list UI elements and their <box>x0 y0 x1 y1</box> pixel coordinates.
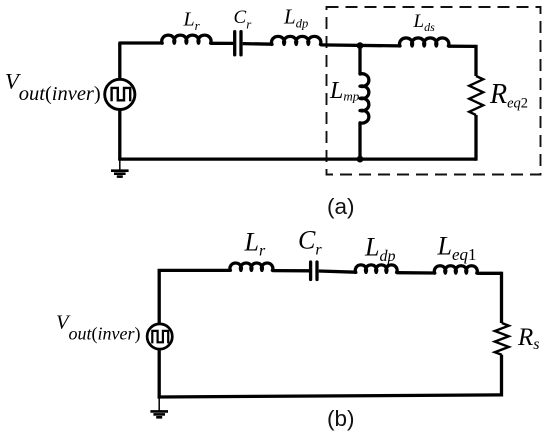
ground (b) <box>158 398 160 411</box>
wire Leq1 to top-right corner <box>477 272 501 275</box>
wire source (b) top lead <box>158 270 161 323</box>
inductor L4 coil (Lmp, vertical) <box>360 74 369 123</box>
wire Lr to Cr (b) <box>273 269 310 272</box>
svg-text:Lr: Lr <box>183 8 201 33</box>
node A junction dot <box>357 42 364 49</box>
svg-text:(b): (b) <box>327 406 355 431</box>
capacitor C2 (Cr) plates <box>311 262 317 280</box>
svg-text:Lds: Lds <box>413 11 436 34</box>
svg-text:Vout(inver): Vout(inver) <box>56 311 141 344</box>
inductor L3 coil (Lds) <box>400 38 449 46</box>
svg-text:Lmp: Lmp <box>329 78 360 104</box>
wire Lds to top-right corner <box>448 45 476 49</box>
inductor L6 coil (Ldp) <box>355 265 397 272</box>
wire Ldp to Leq1 <box>397 271 435 275</box>
svg-text:Req2: Req2 <box>489 79 528 112</box>
svg-text:Vout(inver): Vout(inver) <box>5 68 101 105</box>
svg-text:Ldp: Ldp <box>283 5 308 31</box>
ground (a) <box>119 160 121 170</box>
svg-text:Leq1: Leq1 <box>437 232 477 265</box>
wire Cr to Ldp <box>243 42 272 46</box>
inductor L5 coil (Lr) <box>230 263 273 270</box>
svg-text:(a): (a) <box>327 194 355 219</box>
wire source top lead <box>118 43 121 79</box>
wire top-left corner to Lr <box>159 269 230 271</box>
voltage source V2 (square-wave) circle <box>147 324 172 349</box>
svg-text:Cr: Cr <box>234 7 253 32</box>
wire right branch bottom lead <box>474 115 477 161</box>
inductor L7 coil (Leq1) <box>434 266 477 273</box>
wire right branch (b) top lead <box>500 272 503 323</box>
svg-text:Ldp: Ldp <box>364 233 395 266</box>
wire source bottom lead <box>118 110 121 160</box>
svg-text:Rs: Rs <box>517 324 540 353</box>
dashed box (equivalent secondary network) <box>327 7 541 175</box>
wire Cr to Ldp (b) <box>319 271 356 272</box>
inductor L2 coil (Ldp) <box>272 36 321 44</box>
wire top-left corner to Lr <box>120 42 162 44</box>
wire right branch (b) bottom lead <box>500 355 503 397</box>
square-wave glyph inside source <box>112 88 131 101</box>
svg-text:Cr: Cr <box>298 226 322 259</box>
node B junction dot (Lmp bottom) <box>357 156 364 163</box>
square-wave glyph inside source (b) <box>152 331 168 344</box>
resistor R1 zigzag (Req2) <box>469 76 483 115</box>
resistor R2 zigzag (Rs) <box>495 323 509 355</box>
svg-text:Lr: Lr <box>244 228 266 260</box>
wire Lmp bottom lead <box>358 123 361 159</box>
wire right branch top lead <box>474 45 477 76</box>
wire bottom rail (a) <box>118 157 476 160</box>
inductor L1 coil (Lr) <box>162 35 211 43</box>
voltage source V1 (square-wave) circle <box>105 79 135 109</box>
wire source (b) bottom lead <box>158 350 161 398</box>
wire Ldp to node A <box>320 45 400 46</box>
wire Lmp top lead <box>358 46 361 74</box>
wire bottom rail (b) <box>158 395 502 397</box>
capacitor C1 (Cr) plates <box>235 32 241 55</box>
wire Lr to Cr <box>211 42 233 45</box>
